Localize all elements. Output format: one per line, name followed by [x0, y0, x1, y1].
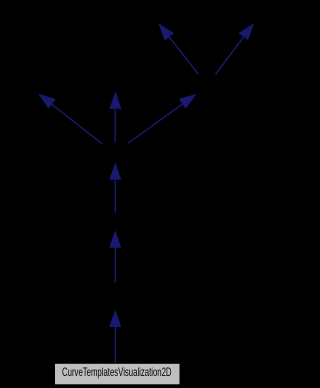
inheritance arrow E5: node C to node D (up-left diagonal) — [39, 94, 102, 143]
inheritance arrow E7: node F to node G (up-left diagonal) — [159, 24, 198, 74]
inheritance arrow E1: CurveTemplatesVisualization2D to parent node A — [110, 311, 121, 363]
class node box CurveTemplatesVisualization2D — [55, 363, 181, 385]
svg-text:CurveTemplatesVisualization2D: CurveTemplatesVisualization2D — [62, 365, 172, 379]
inheritance arrow E4: node C to node E (vertical) — [110, 93, 121, 143]
inheritance arrow E6: node C to node F (up-right diagonal) — [128, 95, 195, 143]
inheritance arrow E2: node A to node B — [110, 232, 121, 282]
inheritance arrow E8: node F to node H (up-right diagonal) — [215, 24, 253, 74]
inheritance arrow E3: node B to node C — [110, 164, 121, 213]
